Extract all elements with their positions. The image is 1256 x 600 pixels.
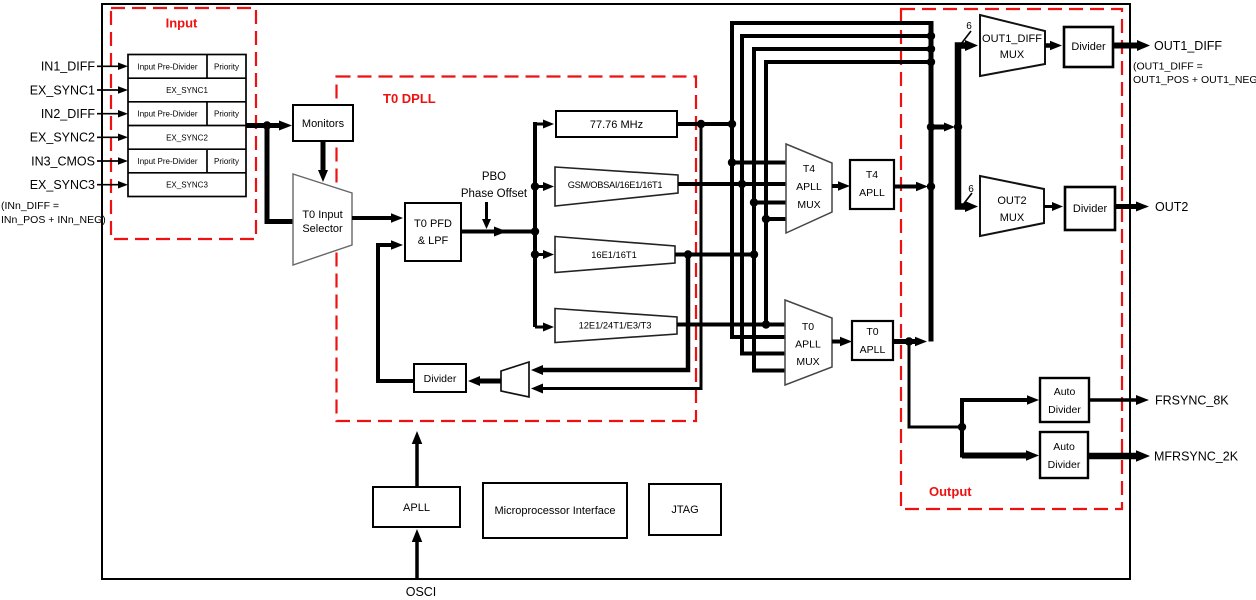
wire T4 mux to T4 APLL (832, 181, 850, 191)
junction 77.76 to bus (728, 120, 736, 128)
svg-text:FRSYNC_8K: FRSYNC_8K (1155, 394, 1229, 408)
note OUT1_DIFF definition (1133, 61, 1256, 87)
wire PBO arrow (482, 202, 491, 229)
svg-text:& LPF: & LPF (418, 235, 449, 247)
junction bus B to collector (927, 32, 935, 40)
junction 16E1 to bus (750, 250, 758, 258)
block input pre-divider / priority table (128, 55, 246, 197)
wire bus net C (16E1) top run and to T0 mux (754, 49, 931, 371)
wire 16E1 feedback to selector mux (531, 255, 688, 376)
wire output mux feeder vertical (958, 46, 966, 207)
block JTAG (649, 484, 721, 535)
svg-text:OUT1_DIFF: OUT1_DIFF (1154, 39, 1222, 53)
wire IN2_DIFF input arrow (97, 110, 128, 118)
dashed group box T0 DPLL (337, 77, 697, 422)
junction bus D to collector (927, 58, 935, 66)
svg-text:12E1/24T1/E3/T3: 12E1/24T1/E3/T3 (579, 321, 652, 331)
junction GSM to bus (738, 180, 746, 188)
mux T0 APLL MUX (785, 300, 832, 385)
wire EX_SYNC1 input arrow (97, 86, 128, 94)
junction T4 mux input 1 (728, 158, 736, 166)
junction T4 output on collector (927, 182, 935, 190)
svg-text:T0 Input: T0 Input (302, 209, 342, 221)
svg-text:Input: Input (166, 16, 198, 31)
svg-text:77.76 MHz: 77.76 MHz (590, 119, 643, 131)
wire bus net D (12E1) top run (766, 62, 931, 325)
wire 16E1 output (675, 253, 754, 257)
junction T4 mux input 4 (762, 215, 770, 223)
mux OUT1_DIFF MUX (980, 15, 1045, 76)
wire T4 mux input 3 (754, 201, 786, 205)
svg-text:MUX: MUX (797, 199, 820, 211)
wire selector to PFD (352, 213, 403, 223)
mux OUT2 MUX (980, 176, 1044, 236)
svg-text:EX_SYNC2: EX_SYNC2 (30, 131, 95, 145)
junction input bus split (263, 121, 271, 129)
svg-text:OUT2: OUT2 (997, 195, 1026, 207)
wire T4 APLL output to collector (894, 182, 928, 192)
svg-text:T0 DPLL: T0 DPLL (383, 91, 436, 106)
svg-text:Phase Offset: Phase Offset (461, 188, 528, 200)
junction 12E1 to bus (762, 320, 770, 328)
svg-text:IN2_DIFF: IN2_DIFF (41, 107, 96, 121)
block 77.76 MHz (556, 111, 677, 137)
wire T0 APLL output to collector (893, 337, 927, 347)
svg-text:Input Pre-Divider: Input Pre-Divider (137, 62, 197, 71)
wire 77.76 MHz output (677, 122, 732, 126)
bus width marker 6 at OUT2 (962, 184, 974, 206)
svg-text:APLL: APLL (403, 502, 430, 514)
mux 12E1/24T1/E3/T3 (555, 309, 677, 343)
svg-text:Divider: Divider (1048, 404, 1081, 416)
wire IN3_CMOS input arrow (97, 157, 128, 165)
wire EX_SYNC2 input arrow (97, 134, 128, 142)
block Divider OUT1 (1064, 27, 1113, 67)
svg-text:JTAG: JTAG (671, 504, 698, 516)
block APLL (373, 487, 460, 527)
block T0 APLL (852, 321, 893, 360)
svg-text:Selector: Selector (302, 223, 343, 235)
wire clock distribution vertical (533, 122, 537, 327)
wire bus net B (GSM) top run and to T0 mux (742, 36, 931, 354)
block Auto Divider 1 (1040, 378, 1089, 422)
wire 77.76 feedback to selector mux (531, 124, 701, 394)
junction bus C to collector (927, 45, 935, 53)
mux T0 Input Selector (293, 174, 352, 265)
wire feedback mux to divider (468, 376, 501, 386)
wire feed to GSM block (535, 182, 554, 191)
svg-text:APLL: APLL (859, 187, 885, 199)
block Microprocessor Interface (483, 483, 627, 538)
wire EX_SYNC3 input arrow (97, 181, 128, 189)
junction feed GSM (531, 182, 539, 190)
svg-text:Priority: Priority (214, 110, 239, 119)
svg-text:Divider: Divider (1071, 41, 1106, 53)
wire FRSYNC_8K output (1089, 395, 1149, 405)
svg-text:INn_POS + INn_NEG): INn_POS + INn_NEG) (1, 214, 106, 226)
svg-text:EX_SYNC1: EX_SYNC1 (30, 83, 95, 97)
svg-text:Priority: Priority (214, 157, 239, 166)
wire OUT1 mux to divider (1045, 41, 1062, 51)
wire feeder to OUT2 mux (965, 201, 978, 212)
wire to auto divider 1 (962, 395, 1039, 405)
mux feedback selector (501, 362, 529, 397)
wire bus net A (77.76) top run and to T0 mux (732, 23, 931, 337)
svg-text:IN1_DIFF: IN1_DIFF (41, 60, 96, 74)
wire feed to 12E1 block (535, 323, 554, 332)
label PBO Phase Offset (461, 171, 528, 200)
wire OUT1_DIFF output (1113, 40, 1150, 51)
svg-text:6: 6 (968, 184, 974, 195)
wire OUT2 mux to divider (1044, 202, 1063, 211)
bus width marker 6 at OUT1 (961, 21, 972, 44)
svg-text:Microprocessor Interface: Microprocessor Interface (494, 505, 615, 517)
block T0 PFD & LPF (405, 203, 461, 261)
mux T4 APLL MUX (786, 144, 832, 233)
wire output collector vertical (929, 21, 934, 342)
wire divider feedback to PFD (378, 240, 414, 381)
svg-text:T4: T4 (803, 163, 815, 175)
wire T4 mux input 4 (766, 217, 786, 221)
junction 77.76 feedback tap (697, 120, 705, 128)
svg-text:EX_SYNC3: EX_SYNC3 (30, 178, 95, 192)
svg-text:Monitors: Monitors (302, 118, 345, 130)
svg-text:PBO: PBO (482, 171, 506, 183)
svg-text:(INn_DIFF =: (INn_DIFF = (1, 200, 59, 212)
svg-text:OUT1_POS + OUT1_NEG): OUT1_POS + OUT1_NEG) (1133, 74, 1256, 86)
note INn_DIFF definition (1, 200, 106, 226)
junction T4 mux input 3 (750, 198, 758, 206)
wire MFRSYNC_2K output (1088, 450, 1150, 462)
junction feed 16E1 (531, 250, 539, 258)
wire input bus to T0 input selector (267, 126, 293, 222)
svg-text:APLL: APLL (796, 181, 822, 193)
block Divider OUT2 (1065, 187, 1115, 230)
wire APLL to T0 DPLL (412, 431, 423, 488)
junction PFD output (531, 227, 539, 235)
svg-text:APLL: APLL (795, 339, 821, 351)
svg-text:OUT2: OUT2 (1155, 200, 1188, 214)
junction T0 output split (905, 337, 913, 345)
svg-text:OSCI: OSCI (406, 585, 437, 599)
wire 12E1 output to T0 mux (677, 323, 785, 327)
wire feed to 16E1 block (535, 250, 554, 259)
block T4 APLL (850, 160, 894, 209)
svg-text:Divider: Divider (424, 373, 457, 385)
mux GSM/OBSAI/16E1/16T1 (555, 167, 678, 206)
svg-text:OUT1_DIFF: OUT1_DIFF (982, 33, 1042, 45)
wire T4 mux input 1 (732, 161, 786, 165)
svg-text:Divider: Divider (1073, 203, 1108, 215)
svg-text:EX_SYNC3: EX_SYNC3 (166, 181, 208, 190)
svg-text:Output: Output (929, 484, 972, 499)
block Divider (T0 feedback) (414, 364, 466, 392)
wire OUT2 output (1115, 202, 1149, 212)
chip boundary frame (102, 4, 1130, 579)
block Auto Divider 2 (1040, 432, 1088, 478)
junction auto divider split (958, 423, 966, 431)
dashed group box Output (901, 9, 1122, 509)
wire collector to feeder junction (931, 123, 955, 132)
svg-text:Input Pre-Divider: Input Pre-Divider (137, 110, 197, 119)
svg-text:(OUT1_DIFF =: (OUT1_DIFF = (1133, 61, 1203, 73)
svg-text:APLL: APLL (860, 344, 886, 356)
wire T0 mux to T0 APLL (832, 337, 852, 347)
mux 16E1/16T1 (555, 237, 675, 273)
svg-text:Divider: Divider (1048, 459, 1081, 471)
wire GSM output to T4 mux (678, 182, 786, 186)
svg-text:GSM/OBSAI/16E1/16T1: GSM/OBSAI/16E1/16T1 (568, 180, 663, 190)
svg-text:T0 PFD: T0 PFD (414, 218, 452, 230)
wire Monitors to selector (318, 141, 328, 182)
svg-text:MUX: MUX (796, 356, 819, 368)
svg-text:Priority: Priority (214, 62, 239, 71)
junction collector tap (927, 123, 935, 131)
dashed group box Input (111, 8, 256, 239)
wire auto divider split vertical (960, 398, 964, 458)
wire feeder to OUT1_DIFF mux (965, 40, 978, 51)
svg-text:16E1/16T1: 16E1/16T1 (591, 250, 637, 260)
junction feeder tap (954, 123, 962, 131)
svg-text:MUX: MUX (1000, 212, 1025, 224)
wire input bus to Monitors (246, 121, 292, 131)
svg-text:Input Pre-Divider: Input Pre-Divider (137, 157, 197, 166)
svg-text:IN3_CMOS: IN3_CMOS (31, 154, 95, 168)
svg-text:Auto: Auto (1054, 386, 1076, 398)
wire IN1_DIFF input arrow (97, 63, 128, 71)
wire to auto divider 2 (962, 450, 1039, 461)
svg-text:EX_SYNC1: EX_SYNC1 (166, 86, 208, 95)
svg-text:MUX: MUX (1000, 49, 1025, 61)
svg-text:T0: T0 (866, 326, 878, 338)
svg-text:T0: T0 (802, 321, 814, 333)
wire feed to 77.76 MHz (533, 120, 554, 129)
wire T0 output down branch (909, 342, 962, 428)
block Monitors (293, 105, 353, 141)
junction 16E1 feedback tap (684, 250, 692, 258)
svg-text:6: 6 (966, 21, 972, 32)
svg-text:Auto: Auto (1053, 441, 1075, 453)
svg-text:EX_SYNC2: EX_SYNC2 (166, 133, 208, 142)
wire PFD output to clock distribution (461, 227, 535, 237)
svg-text:MFRSYNC_2K: MFRSYNC_2K (1154, 450, 1239, 464)
wire OSCI to APLL (412, 529, 423, 579)
svg-text:T4: T4 (866, 169, 878, 181)
